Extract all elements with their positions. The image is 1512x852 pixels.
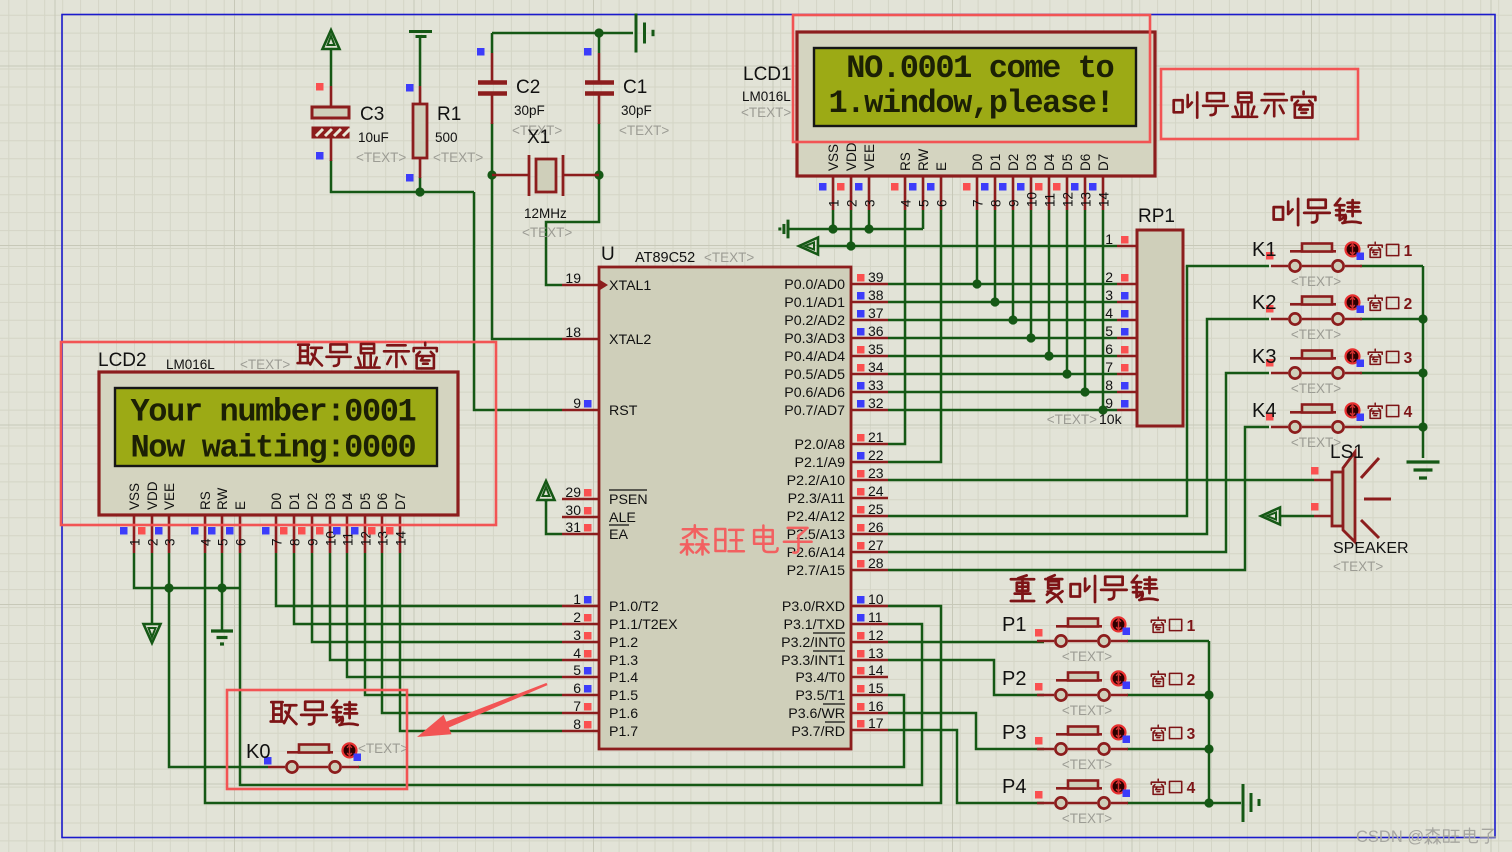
svg-text:K3: K3 [1252,346,1276,368]
svg-text:VSS: VSS [127,483,142,510]
svg-text:10uF: 10uF [358,130,389,145]
svg-text:K4: K4 [1252,400,1276,422]
svg-text:<TEXT>: <TEXT> [1291,274,1341,289]
svg-text:1: 1 [827,199,842,207]
svg-text:9: 9 [573,395,581,411]
svg-text:26: 26 [868,519,884,535]
svg-text:<TEXT>: <TEXT> [741,105,791,120]
svg-text:CSDN @: CSDN @ [1356,828,1424,846]
svg-text:1: 1 [1404,243,1413,260]
svg-text:30pF: 30pF [514,103,545,118]
svg-text:11: 11 [868,609,883,625]
svg-text:22: 22 [868,447,884,463]
svg-text:C3: C3 [360,104,384,125]
svg-text:P2.2/A10: P2.2/A10 [787,473,845,489]
svg-text:23: 23 [868,465,884,481]
svg-text:30pF: 30pF [621,103,652,118]
svg-text:1: 1 [1105,231,1113,247]
svg-text:12MHz: 12MHz [524,206,567,221]
svg-text:D2: D2 [1006,154,1021,171]
svg-text:P0.4/AD4: P0.4/AD4 [784,349,845,365]
svg-text:D1: D1 [287,493,302,510]
svg-text:RS: RS [198,491,213,510]
svg-text:D2: D2 [305,493,320,510]
svg-text:12: 12 [1061,192,1076,207]
svg-text:9: 9 [1007,199,1022,207]
svg-text:9: 9 [306,538,321,546]
svg-text:3: 3 [1404,350,1413,367]
svg-text:7: 7 [573,698,581,714]
svg-text:P4: P4 [1002,776,1026,798]
svg-text:P3.2/INT0: P3.2/INT0 [781,635,845,651]
svg-text:P3.6/WR: P3.6/WR [788,706,845,722]
svg-text:LCD2: LCD2 [98,350,147,371]
svg-text:P0.5/AD5: P0.5/AD5 [784,367,845,383]
svg-text:36: 36 [868,323,884,339]
svg-text:<TEXT>: <TEXT> [1062,703,1112,718]
svg-text:D3: D3 [323,493,338,510]
svg-text:VDD: VDD [145,481,160,510]
svg-text:SPEAKER: SPEAKER [1333,540,1409,557]
svg-text:4: 4 [1187,780,1196,797]
svg-text:33: 33 [868,377,884,393]
svg-text:17: 17 [868,715,884,731]
svg-text:XTAL1: XTAL1 [609,278,651,294]
svg-text:VSS: VSS [826,144,841,171]
svg-text:5: 5 [573,662,581,678]
svg-text:4: 4 [199,538,214,546]
svg-text:2: 2 [1105,269,1113,285]
svg-text:NO.0001 come to: NO.0001 come to [829,50,1114,87]
svg-text:1: 1 [573,591,581,607]
svg-text:LCD1: LCD1 [743,64,792,85]
svg-text:<TEXT>: <TEXT> [1062,757,1112,772]
svg-text:5: 5 [917,199,932,207]
svg-text:<TEXT>: <TEXT> [358,741,408,756]
svg-text:37: 37 [868,305,884,321]
svg-text:P1: P1 [1002,614,1026,636]
svg-text:<TEXT>: <TEXT> [240,357,290,372]
svg-text:14: 14 [1097,191,1112,207]
svg-text:P2.7/A15: P2.7/A15 [787,563,845,579]
svg-text:<TEXT>: <TEXT> [1062,649,1112,664]
svg-text:2: 2 [1404,296,1413,313]
svg-text:13: 13 [868,645,884,661]
svg-text:29: 29 [565,484,581,500]
svg-text:39: 39 [868,269,884,285]
svg-text:P3.0/RXD: P3.0/RXD [782,599,845,615]
svg-text:P2.1/A9: P2.1/A9 [795,455,846,471]
svg-text:1: 1 [1187,618,1196,635]
svg-text:15: 15 [868,680,884,696]
svg-text:P3: P3 [1002,722,1026,744]
svg-text:<TEXT>: <TEXT> [1047,412,1097,427]
svg-text:10: 10 [1025,192,1040,207]
svg-text:D7: D7 [1096,154,1111,171]
svg-text:P3.3/INT1: P3.3/INT1 [781,653,845,669]
svg-text:D1: D1 [988,154,1003,171]
svg-text:12: 12 [868,627,884,643]
svg-text:LM016L: LM016L [742,89,791,104]
svg-text:16: 16 [868,698,884,714]
svg-text:7: 7 [1105,359,1113,375]
svg-text:<TEXT>: <TEXT> [1291,327,1341,342]
svg-text:P0.7/AD7: P0.7/AD7 [784,403,845,419]
svg-text:K2: K2 [1252,292,1276,314]
svg-text:PSEN: PSEN [609,492,648,508]
svg-text:500: 500 [435,130,458,145]
svg-text:RW: RW [916,148,931,171]
svg-text:8: 8 [573,716,581,732]
svg-text:AT89C52: AT89C52 [635,250,695,266]
svg-text:P1.1/T2EX: P1.1/T2EX [609,617,678,633]
svg-text:D4: D4 [1042,153,1057,171]
svg-text:5: 5 [216,538,231,546]
svg-text:18: 18 [565,324,581,340]
svg-text:X1: X1 [527,127,550,148]
svg-text:RW: RW [215,487,230,510]
svg-text:LS1: LS1 [1330,442,1364,463]
svg-text:13: 13 [1079,192,1094,207]
svg-text:<TEXT>: <TEXT> [1291,381,1341,396]
svg-text:6: 6 [935,199,950,207]
svg-text:31: 31 [565,519,581,535]
svg-text:35: 35 [868,341,884,357]
svg-text:2: 2 [845,199,860,207]
svg-text:34: 34 [868,359,884,375]
svg-text:P1.0/T2: P1.0/T2 [609,599,659,615]
svg-text:<TEXT>: <TEXT> [1062,811,1112,826]
svg-text:P0.0/AD0: P0.0/AD0 [784,277,845,293]
svg-text:3: 3 [863,199,878,207]
svg-text:5: 5 [1105,323,1113,339]
svg-text:P3.4/T0: P3.4/T0 [795,670,845,686]
svg-text:D6: D6 [375,493,390,510]
svg-text:8: 8 [1105,377,1113,393]
svg-text:3: 3 [163,538,178,546]
svg-text:D0: D0 [970,154,985,171]
svg-text:P2.4/A12: P2.4/A12 [787,509,845,525]
svg-text:D0: D0 [269,493,284,510]
svg-text:D7: D7 [393,493,408,510]
svg-text:VEE: VEE [862,144,877,171]
svg-text:4: 4 [1404,404,1413,421]
svg-text:C1: C1 [623,77,647,98]
svg-text:P0.3/AD3: P0.3/AD3 [784,331,845,347]
svg-text:6: 6 [1105,341,1113,357]
svg-text:28: 28 [868,555,884,571]
svg-text:19: 19 [565,270,581,286]
svg-text:D6: D6 [1078,154,1093,171]
svg-text:32: 32 [868,395,884,411]
svg-text:E: E [233,501,248,510]
svg-text:8: 8 [989,199,1004,207]
svg-text:VDD: VDD [844,142,859,171]
svg-text:P1.2: P1.2 [609,635,638,651]
svg-text:<TEXT>: <TEXT> [704,250,754,265]
svg-text:11: 11 [1043,193,1058,207]
svg-text:<TEXT>: <TEXT> [1333,559,1383,574]
svg-text:K0: K0 [246,741,270,763]
svg-text:P1.4: P1.4 [609,670,638,686]
svg-text:K1: K1 [1252,239,1276,261]
svg-text:P2: P2 [1002,668,1026,690]
svg-text:25: 25 [868,501,884,517]
svg-text:P0.1/AD1: P0.1/AD1 [784,295,845,311]
svg-text:XTAL2: XTAL2 [609,332,651,348]
svg-text:24: 24 [868,483,884,499]
svg-text:E: E [934,162,949,171]
svg-text:D3: D3 [1024,154,1039,171]
svg-text:1: 1 [128,538,143,546]
svg-text:<TEXT>: <TEXT> [619,123,669,138]
svg-text:P1.6: P1.6 [609,706,638,722]
svg-text:7: 7 [971,199,986,207]
svg-text:4: 4 [573,645,581,661]
svg-text:3: 3 [1105,287,1113,303]
svg-text:14: 14 [394,530,409,546]
svg-text:LM016L: LM016L [166,357,215,372]
svg-text:4: 4 [1105,305,1113,321]
svg-text:7: 7 [270,538,285,546]
svg-text:D5: D5 [1060,154,1075,171]
svg-text:2: 2 [1187,672,1196,689]
svg-text:P2.0/A8: P2.0/A8 [795,437,846,453]
svg-text:P3.5/T1: P3.5/T1 [795,688,845,704]
svg-text:RST: RST [609,403,638,419]
svg-text:10: 10 [868,591,884,607]
svg-text:6: 6 [573,680,581,696]
svg-text:P3.7/RD: P3.7/RD [791,724,845,740]
svg-text:P3.1/TXD: P3.1/TXD [783,617,845,633]
svg-text:R1: R1 [437,104,461,125]
svg-text:6: 6 [234,538,249,546]
svg-text:8: 8 [288,538,303,546]
svg-text:P1.7: P1.7 [609,724,638,740]
svg-text:38: 38 [868,287,884,303]
svg-text:1.window,please!: 1.window,please! [829,85,1114,122]
svg-text:P1.5: P1.5 [609,688,638,704]
svg-text:4: 4 [899,199,914,207]
svg-text:D5: D5 [358,493,373,510]
svg-text:VEE: VEE [162,483,177,510]
svg-text:10k: 10k [1099,411,1123,427]
svg-text:2: 2 [146,538,161,546]
svg-text:RS: RS [898,152,913,171]
svg-text:3: 3 [1187,726,1196,743]
svg-text:3: 3 [573,627,581,643]
svg-text:P2.3/A11: P2.3/A11 [788,491,845,507]
svg-text:Now waiting:0000: Now waiting:0000 [131,430,416,467]
svg-text:EA: EA [609,527,628,543]
svg-text:<TEXT>: <TEXT> [433,150,483,165]
svg-text:P0.6/AD6: P0.6/AD6 [784,385,845,401]
svg-text:<TEXT>: <TEXT> [522,225,572,240]
svg-text:D4: D4 [340,492,355,510]
svg-text:14: 14 [868,662,884,678]
svg-text:30: 30 [565,502,581,518]
svg-text:2: 2 [573,609,581,625]
svg-text:U: U [601,244,615,265]
svg-text:21: 21 [868,429,884,445]
svg-text:<TEXT>: <TEXT> [356,150,406,165]
svg-text:ALE: ALE [609,510,636,526]
svg-text:27: 27 [868,537,884,553]
svg-text:C2: C2 [516,77,540,98]
svg-text:P0.2/AD2: P0.2/AD2 [784,313,845,329]
svg-text:9: 9 [1105,395,1113,411]
svg-text:RP1: RP1 [1138,206,1175,227]
svg-text:Your number:0001: Your number:0001 [131,394,416,431]
svg-text:P1.3: P1.3 [609,653,638,669]
